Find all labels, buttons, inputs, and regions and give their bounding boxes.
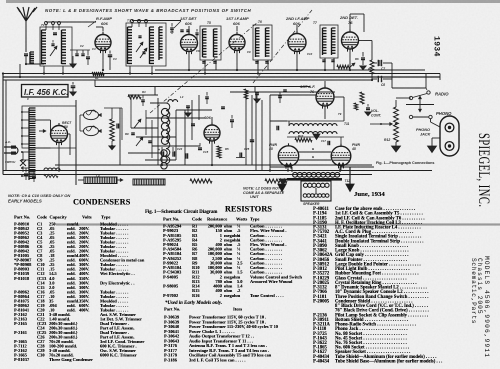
- svg-text:B: B: [312, 147, 315, 151]
- resistors table header: [163, 217, 323, 223]
- terminal switch arm lower: [409, 115, 412, 118]
- wire: V2 grid and plate wires: [188, 26, 190, 32]
- svg-text:C6: C6: [196, 49, 200, 53]
- tube V8 1st A.F. 76: [316, 88, 334, 106]
- capacitor trimmers below T5: [202, 61, 205, 63]
- tube V9 power amp 45 left: [278, 146, 298, 166]
- wire: push-pull grid lines: [299, 151, 332, 153]
- capacitor C2 trimmer: [75, 53, 78, 55]
- junction dots: [25, 63, 27, 65]
- capacitor C1: [53, 32, 57, 34]
- svg-text:R12: R12: [384, 138, 390, 142]
- wire: bus C y77: [3, 76, 440, 78]
- svg-text:I.F. 456 K.C.: I.F. 456 K.C.: [24, 88, 68, 97]
- tube V6 oscillator 606: [204, 125, 220, 141]
- pilot lamp P2: [84, 126, 99, 135]
- svg-text:SPEAKER: SPEAKER: [303, 202, 320, 206]
- switch cross: [406, 104, 434, 106]
- pilot lamp P1: [84, 110, 99, 119]
- svg-text:606: 606: [101, 21, 108, 26]
- svg-text:Fig. 1—Phonograph Connections: Fig. 1—Phonograph Connections: [376, 161, 434, 165]
- resistor R3 osc grid: [128, 95, 141, 99]
- arrow: transformer core arrow: [39, 130, 46, 132]
- wire: V5 grid to T7 top: [349, 14, 351, 24]
- svg-text:1934: 1934: [432, 36, 441, 57]
- capacitor C36 mid row: [205, 96, 209, 98]
- tube V2 1st det 606: [181, 35, 198, 52]
- header CONDENSERS: [73, 197, 130, 207]
- choke L5 filter 2: [133, 179, 165, 185]
- caption fig1 schematic: [145, 209, 217, 215]
- svg-text:606: 606: [204, 115, 211, 120]
- resistor R5 osc plate: [217, 146, 221, 158]
- svg-text:R9: R9: [125, 132, 129, 136]
- svg-text:C8: C8: [381, 83, 385, 87]
- wire: V6 wires: [211, 117, 213, 123]
- potentiometer R12 volume control: [394, 107, 399, 142]
- coil L3 oscillator coil: [166, 103, 170, 164]
- parts2 table: [164, 315, 364, 369]
- svg-text:+: +: [158, 148, 160, 152]
- svg-text:C17: C17: [321, 139, 326, 143]
- svg-text:C9: C9: [247, 50, 251, 54]
- svg-text:C25: C25: [244, 147, 250, 151]
- svg-text:80: 80: [64, 125, 68, 129]
- wire: osc coil rails: [157, 98, 159, 165]
- resistor R6 at V5 cathode: [337, 65, 350, 69]
- capacitor C19 osc pad: [131, 132, 135, 134]
- svg-text:C15: C15: [203, 150, 209, 154]
- capacitor C25 bypass: [239, 153, 241, 158]
- transformer primary winding: [29, 108, 36, 180]
- transformer T10 interstage: [287, 120, 344, 122]
- wire: bus B y73.5: [3, 73, 440, 75]
- svg-text:PHONO: PHONO: [416, 128, 430, 132]
- jack contact lower: [445, 142, 454, 151]
- capacitor C18 osc: [141, 99, 145, 101]
- coil T3 detector input transformer: [126, 23, 166, 66]
- antenna: [17, 7, 37, 21]
- capacitor C7 phono: [378, 60, 380, 66]
- capacitor inside T3: [138, 35, 141, 37]
- svg-text:CONT.: CONT.: [371, 114, 382, 118]
- svg-text:T6: T6: [258, 20, 262, 24]
- ground arrow left of T12: [281, 181, 283, 184]
- switch arrows osc: [134, 119, 141, 128]
- capacitor C32 osc right: [221, 106, 225, 108]
- ground below T1 trimmers: [72, 56, 74, 64]
- terminal switch arm upper: [409, 96, 412, 99]
- parts2 header: [164, 307, 324, 313]
- capacitor C33 with ground: [255, 92, 259, 94]
- resistors table: [163, 224, 363, 324]
- vertical Chassis line: [476, 258, 483, 315]
- svg-text:JACK: JACK: [420, 133, 431, 137]
- coil T1 antenna transformer: [40, 27, 72, 66]
- capacitor C27 osc tank: [191, 123, 195, 125]
- ground arrow below T12 left: [279, 179, 287, 185]
- svg-text:R7: R7: [368, 67, 372, 71]
- svg-text:C5: C5: [170, 30, 174, 34]
- wire: V5 to V8 coupling: [359, 40, 373, 42]
- tube V4 2nd I.F. amp 606: [288, 34, 306, 52]
- svg-text:R1: R1: [95, 76, 99, 80]
- capacitor C5 above T3: [170, 27, 174, 29]
- svg-text:R5: R5: [225, 147, 229, 151]
- wire: V3 wires: [236, 26, 238, 32]
- wire: pilot lamp feeders: [80, 114, 84, 116]
- capacitor C17 bias bypass: [327, 141, 329, 145]
- wire: bus A y70: [155, 69, 425, 71]
- speaker field coil row: [303, 183, 307, 187]
- vertical Schematic line: [470, 258, 477, 324]
- wire: right bus drop to radio: [425, 74, 427, 89]
- resistor R7 coupling: [370, 60, 374, 74]
- terminal RADIO: [427, 91, 430, 94]
- wire: bus D y80: [3, 79, 372, 81]
- svg-text:R3: R3: [142, 90, 146, 94]
- wire: transformer to rectifier: [35, 119, 51, 121]
- wire: y86 drops: [94, 80, 96, 87]
- wire: V1 plate to bus: [102, 51, 104, 71]
- wire: label pointer V1: [88, 21, 96, 27]
- tube V3 1st I.F. amp 606: [229, 35, 245, 51]
- condensers table: [14, 222, 314, 369]
- switch arrow in T1: [50, 46, 57, 56]
- condensers table header: [14, 215, 174, 221]
- svg-text:RADIO: RADIO: [435, 92, 449, 97]
- wire: V5 wires: [349, 24, 351, 30]
- speaker voice coil row: [303, 194, 307, 198]
- wire: T10 feeds: [270, 120, 287, 122]
- svg-text:SWITCH: SWITCH: [5, 160, 15, 164]
- resistor R10 bias: [295, 138, 312, 142]
- capacitor C29 bypass: [276, 126, 278, 131]
- wire: top terminal runs: [46, 21, 96, 23]
- phono jack body: [440, 116, 459, 156]
- ground below R9: [109, 146, 115, 150]
- wire: audio rails extra: [245, 95, 247, 165]
- wire: V9 V10 plate drops: [287, 166, 289, 171]
- jack contact upper: [445, 123, 454, 132]
- wire: mid bus y165: [55, 164, 372, 166]
- capacitor C4 at V1 cathode: [108, 54, 112, 56]
- ground arrow below T11 center: [313, 134, 320, 140]
- wire: V4 wires: [296, 25, 298, 31]
- wire: T7 drops: [324, 58, 326, 70]
- resistor R17 right of osc: [244, 89, 248, 99]
- wire: power right rail: [75, 100, 77, 185]
- svg-text:B: B: [312, 155, 315, 159]
- vertical MODELS line: [483, 256, 490, 358]
- tube V1 R.F. amp 606: [95, 35, 111, 51]
- wire: V2 label pointer: [174, 21, 181, 28]
- capacitor C24 electrolytic: [185, 153, 187, 158]
- tube V5 2nd det 76: [342, 32, 359, 49]
- capacitor trimmers below T7: [322, 59, 325, 61]
- wire: mid bus y174.5: [3, 174, 372, 176]
- wire: V8 connections: [324, 81, 326, 87]
- capacitor inside T1: [51, 43, 54, 45]
- svg-text:C3: C3: [92, 47, 96, 51]
- resistor R8 grid leak: [360, 92, 364, 104]
- resistor R15 divider: [190, 179, 212, 183]
- svg-text:NOTE: L2 DOES NOT: NOTE: L2 DOES NOT: [243, 187, 281, 191]
- capacitor trimmers below T6: [255, 61, 258, 63]
- wire: phono caps to switch: [391, 63, 393, 79]
- svg-text:1ST A.F.: 1ST A.F.: [300, 84, 315, 89]
- coil T7 detector transformer: [320, 25, 338, 58]
- coil L-filament hum coil: [44, 168, 60, 170]
- svg-text:T7: T7: [313, 21, 317, 25]
- svg-text:L3: L3: [180, 95, 184, 99]
- svg-text:45: 45: [351, 147, 356, 151]
- svg-text:C10: C10: [307, 52, 313, 56]
- speaker frame: [301, 181, 331, 201]
- capacitor C22 electrolytic +: [161, 151, 163, 156]
- wire: jack to ground: [432, 137, 440, 139]
- wire: left edge verticals: [2, 74, 4, 175]
- ground arrow right of T12: [349, 167, 351, 184]
- svg-text:NOTE: C9 & C10 USED ONLY ON: NOTE: C9 & C10 USED ONLY ON: [8, 193, 70, 198]
- terminal row above T1: [45, 22, 48, 25]
- capacitor C35 between V2 and T5: [195, 32, 198, 34]
- ground below IF box: [71, 85, 76, 87]
- wire: rectifier output: [58, 143, 60, 171]
- svg-text:C2: C2: [80, 44, 84, 48]
- vertical SPIEGEL, INC.: [474, 133, 491, 207]
- terminal PHONO: [429, 115, 432, 118]
- coil L1 antenna coil: [24, 53, 28, 55]
- capacitor C11 right of V5: [361, 57, 365, 59]
- svg-text:PHONO: PHONO: [436, 111, 452, 116]
- wire: mid horizontal y86: [95, 86, 310, 88]
- wire: T5 drops: [204, 60, 206, 74]
- capacitor C6 trimmer right of T3: [180, 29, 183, 31]
- resistor R8b top right: [354, 103, 358, 110]
- choke L4 filter: [84, 177, 117, 184]
- wire: osc mesh horizontals: [128, 94, 158, 96]
- capacitor C8 phono: [378, 76, 379, 82]
- wire: dashed gang line 2: [253, 10, 312, 83]
- capacitor C20 osc pad2: [148, 140, 152, 142]
- svg-text:T5: T5: [207, 21, 211, 25]
- top scan bar: [6, 0, 500, 3]
- capacitor C12 beside R9: [116, 124, 118, 129]
- resistor hum balance: [44, 174, 58, 177]
- wire: T6 drops: [257, 60, 259, 74]
- svg-text:C7: C7: [381, 67, 385, 71]
- svg-text:UNIT: UNIT: [250, 195, 259, 199]
- wire: V1 grid cap: [102, 27, 104, 32]
- ground below R12: [395, 142, 397, 146]
- capacitor C3: [86, 56, 90, 58]
- wire: osc rails extra: [184, 110, 186, 165]
- parts3 table: [313, 207, 500, 369]
- svg-text:C22: C22: [177, 147, 183, 151]
- wire: audio left rail: [269, 95, 271, 171]
- svg-text:R6: R6: [355, 57, 359, 61]
- capacitor C15b at V8 grid: [283, 89, 287, 91]
- resistor R1: [92, 72, 104, 76]
- capacitor C23 electrolytic: [172, 151, 174, 156]
- resistor R16 divider 2: [265, 179, 287, 183]
- transformer T12 output winding loops: [270, 166, 292, 168]
- capacitor C16 audio: [366, 107, 370, 109]
- wire: left drops to bus: [19, 64, 21, 77]
- capacitor C14 line bypass: [32, 175, 36, 177]
- label I.F. 456 K.C. box: [22, 85, 69, 98]
- svg-text:VOL.: VOL.: [371, 109, 379, 113]
- wire: mid bus y170.5: [3, 170, 432, 172]
- svg-text:606: 606: [233, 21, 240, 26]
- svg-text:76: 76: [348, 20, 353, 25]
- ground below C11: [360, 66, 366, 70]
- terminals above T3: [131, 20, 134, 23]
- switch SW on-off: [20, 160, 26, 166]
- capacitor C26 on rail: [250, 139, 254, 141]
- header RESISTORS: [225, 204, 272, 214]
- switch arrows in T3: [136, 42, 143, 52]
- svg-text:606: 606: [185, 21, 192, 26]
- svg-text:T11: T11: [344, 122, 349, 126]
- wire: mid horizontal y92: [230, 91, 335, 93]
- capacitor C15 at V6: [198, 147, 202, 149]
- wire: phono terminal to jack: [430, 119, 432, 122]
- svg-text:EARLY MODELS: EARLY MODELS: [8, 199, 42, 204]
- svg-text:T9: T9: [338, 112, 342, 116]
- coil T6 2nd I.F. transformer: [253, 25, 272, 60]
- svg-text:NOTE: L & E DESIGNATES SHORT W: NOTE: L & E DESIGNATES SHORT WAVE & BROA…: [45, 8, 251, 13]
- transformer T12 core bar: [287, 178, 342, 181]
- coil T5 1st I.F. transformer: [200, 26, 221, 60]
- svg-text:L4: L4: [96, 174, 100, 178]
- svg-text:A.C.: A.C.: [4, 140, 11, 144]
- wire: T3 drops: [129, 66, 131, 74]
- coil L3 top loops: [168, 100, 178, 102]
- capacitor C37 mid row: [278, 95, 282, 97]
- svg-text:R10: R10: [298, 134, 304, 138]
- transformer T-power frame: [22, 106, 76, 148]
- resistor R9 bleeder: [110, 119, 114, 141]
- svg-text:T12: T12: [345, 179, 351, 183]
- wire: T10 verticals: [288, 121, 290, 126]
- scan gray band: [56, 223, 500, 226]
- svg-text:C4: C4: [113, 57, 117, 61]
- tube V7 rectifier 80: [51, 126, 68, 143]
- capacitor C31 osc top: [186, 105, 190, 107]
- plug A.C. line: [4, 147, 11, 153]
- wire: pilot branch risers: [111, 108, 113, 115]
- tube V10 power amp 45 right: [331, 146, 351, 166]
- wire: dashed gang line 1: [150, 22, 258, 113]
- caption June 1934: [354, 190, 385, 198]
- wire: osc section verticals: [130, 95, 132, 128]
- note early models: [165, 300, 222, 306]
- capacitor C13 line bypass: [24, 173, 28, 175]
- transformer taps: [23, 111, 29, 113]
- capacitor C28 pad: [230, 119, 234, 121]
